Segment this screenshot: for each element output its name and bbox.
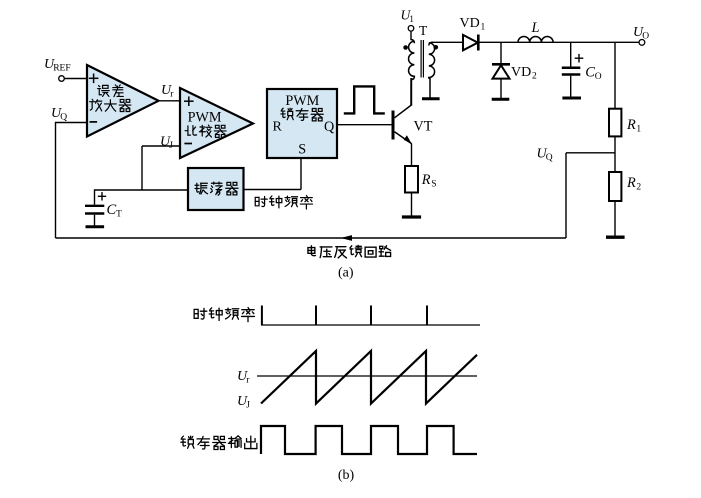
svg-text:VD: VD xyxy=(511,65,531,80)
svg-text:1: 1 xyxy=(409,14,414,24)
svg-text:R: R xyxy=(626,117,636,133)
svg-text:REF: REF xyxy=(53,64,70,74)
svg-text:1: 1 xyxy=(636,125,641,135)
svg-text:R: R xyxy=(273,120,283,135)
svg-text:C: C xyxy=(107,202,117,218)
svg-text:Q: Q xyxy=(546,153,553,163)
svg-text:S: S xyxy=(431,180,436,190)
svg-text:(a): (a) xyxy=(338,266,354,281)
svg-text:PWM: PWM xyxy=(285,93,319,109)
svg-text:L: L xyxy=(531,20,540,36)
svg-text:2: 2 xyxy=(636,183,641,193)
svg-text:R: R xyxy=(626,175,636,191)
svg-text:C: C xyxy=(585,64,595,80)
svg-text:R: R xyxy=(421,172,431,188)
svg-text:Q: Q xyxy=(324,119,334,135)
svg-text:J: J xyxy=(246,401,250,411)
svg-text:S: S xyxy=(298,142,306,158)
svg-text:VT: VT xyxy=(414,119,433,135)
svg-text:O: O xyxy=(642,32,649,42)
svg-text:1: 1 xyxy=(481,23,486,33)
svg-text:O: O xyxy=(595,72,602,82)
svg-text:(b): (b) xyxy=(338,468,355,483)
svg-text:PWM: PWM xyxy=(188,110,222,126)
svg-text:VD: VD xyxy=(460,16,480,31)
svg-text:T: T xyxy=(419,23,428,38)
svg-text:2: 2 xyxy=(532,72,537,82)
svg-text:Q: Q xyxy=(60,113,67,123)
svg-text:T: T xyxy=(116,210,122,220)
